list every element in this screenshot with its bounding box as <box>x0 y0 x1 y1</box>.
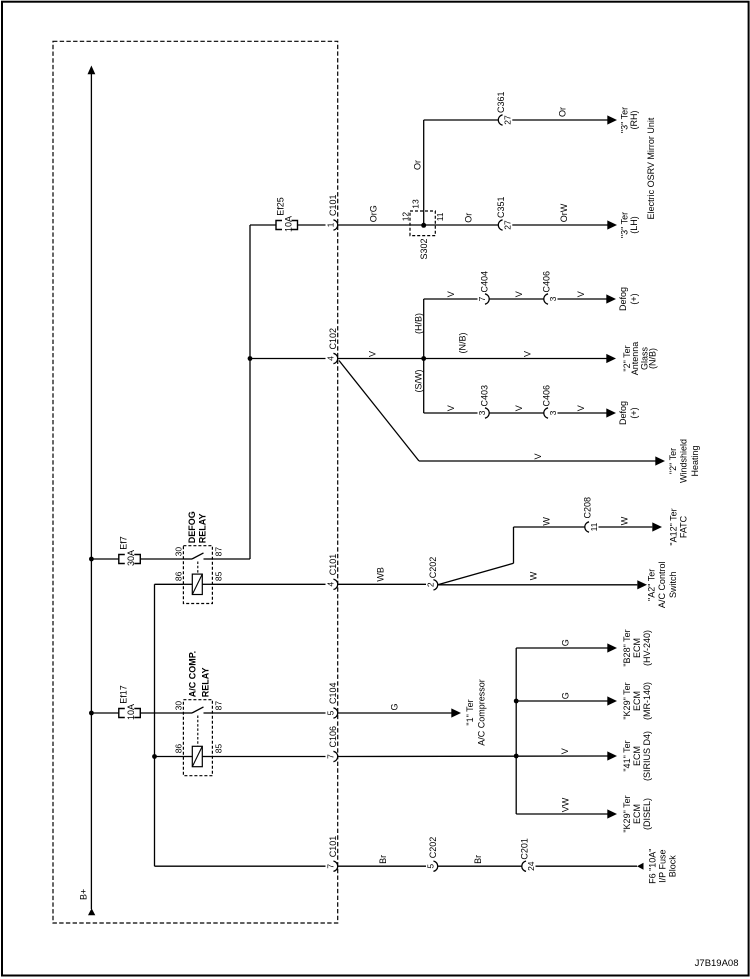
svg-text:11: 11 <box>589 522 599 531</box>
svg-text:10A: 10A <box>283 216 293 232</box>
svg-text:7: 7 <box>477 296 487 301</box>
svg-text:Ef7: Ef7 <box>119 536 129 550</box>
svg-text:C403: C403 <box>480 385 490 407</box>
svg-text:OrW: OrW <box>559 203 569 222</box>
svg-text:RELAY: RELAY <box>197 514 207 544</box>
svg-text:J7B19A08: J7B19A08 <box>695 958 739 969</box>
svg-text:Switch: Switch <box>668 572 678 599</box>
svg-text:1: 1 <box>326 222 336 227</box>
svg-text:(RH): (RH) <box>629 111 639 130</box>
svg-text:G: G <box>390 703 400 710</box>
svg-text:V: V <box>576 405 586 411</box>
svg-text:WB: WB <box>376 567 386 582</box>
svg-text:VW: VW <box>560 797 570 812</box>
svg-text:W: W <box>529 571 539 580</box>
svg-text:5: 5 <box>326 710 336 715</box>
svg-text:86: 86 <box>174 744 184 754</box>
svg-text:"3" Ter: "3" Ter <box>619 212 629 238</box>
svg-text:Defog: Defog <box>618 287 628 311</box>
svg-text:C202: C202 <box>428 557 438 579</box>
svg-text:B+: B+ <box>79 889 89 900</box>
svg-text:86: 86 <box>174 571 184 581</box>
svg-text:(N/B): (N/B) <box>457 333 467 354</box>
svg-text:27: 27 <box>503 115 513 125</box>
svg-text:V: V <box>446 405 456 411</box>
svg-text:Ef17: Ef17 <box>119 685 129 704</box>
svg-text:(S/W): (S/W) <box>413 370 423 393</box>
svg-text:ECM: ECM <box>632 804 642 824</box>
svg-text:V: V <box>446 291 456 297</box>
svg-text:10A: 10A <box>126 704 136 720</box>
svg-text:Or: Or <box>558 107 568 117</box>
svg-text:(MR-140): (MR-140) <box>642 682 652 720</box>
svg-text:A/C COMP.: A/C COMP. <box>187 651 197 697</box>
svg-text:30A: 30A <box>126 550 136 566</box>
svg-text:"K29" Ter: "K29" Ter <box>622 795 632 832</box>
svg-text:"A2" Ter: "A2" Ter <box>647 569 657 601</box>
svg-text:C102: C102 <box>328 328 338 350</box>
svg-text:Antenna: Antenna <box>630 342 640 376</box>
svg-text:V: V <box>522 351 532 357</box>
svg-text:"3" Ter: "3" Ter <box>619 107 629 133</box>
svg-text:Br: Br <box>378 855 388 864</box>
svg-text:4: 4 <box>326 356 336 361</box>
svg-text:12: 12 <box>401 212 411 222</box>
svg-text:11: 11 <box>435 212 445 221</box>
svg-text:Block: Block <box>667 855 677 878</box>
svg-text:W: W <box>620 516 630 525</box>
svg-text:C104: C104 <box>328 682 338 704</box>
svg-text:3: 3 <box>477 410 487 415</box>
svg-text:"A12" Ter: "A12" Ter <box>669 508 679 545</box>
svg-text:Defog: Defog <box>618 401 628 425</box>
svg-text:C404: C404 <box>480 271 490 293</box>
svg-text:2: 2 <box>426 582 436 587</box>
svg-text:Br: Br <box>473 855 483 864</box>
svg-text:DEFOG: DEFOG <box>187 511 197 543</box>
svg-text:(+): (+) <box>629 407 639 418</box>
svg-text:30: 30 <box>174 547 184 557</box>
svg-text:Heating: Heating <box>690 445 700 476</box>
svg-text:"41" Ter: "41" Ter <box>622 740 632 771</box>
svg-text:ECM: ECM <box>632 691 642 711</box>
svg-text:85: 85 <box>213 744 223 754</box>
svg-text:ECM: ECM <box>632 746 642 766</box>
svg-text:87: 87 <box>213 701 223 711</box>
svg-text:C202: C202 <box>428 837 438 859</box>
svg-text:(DISEL): (DISEL) <box>642 798 652 830</box>
svg-text:(+): (+) <box>629 293 639 304</box>
svg-text:C361: C361 <box>496 91 506 113</box>
svg-text:C406: C406 <box>542 385 552 407</box>
svg-text:(SIRIUS D4): (SIRIUS D4) <box>642 731 652 781</box>
svg-text:7: 7 <box>326 864 336 869</box>
svg-text:3: 3 <box>548 296 558 301</box>
svg-text:4: 4 <box>326 582 336 587</box>
svg-text:24: 24 <box>526 861 536 871</box>
svg-text:RELAY: RELAY <box>200 668 210 698</box>
svg-text:V: V <box>514 405 524 411</box>
svg-text:G: G <box>560 692 570 699</box>
svg-text:5: 5 <box>426 864 436 869</box>
svg-text:FATC: FATC <box>678 515 688 538</box>
svg-text:W: W <box>542 517 552 526</box>
svg-text:13: 13 <box>410 199 420 209</box>
svg-text:"1" Ter: "1" Ter <box>465 699 475 725</box>
svg-text:C101: C101 <box>328 554 338 576</box>
svg-text:Or: Or <box>412 160 422 170</box>
svg-text:V: V <box>533 453 543 459</box>
svg-text:V: V <box>368 351 378 357</box>
svg-text:OrG: OrG <box>369 205 379 222</box>
svg-text:V: V <box>576 291 586 297</box>
svg-text:3: 3 <box>548 410 558 415</box>
svg-text:Or: Or <box>464 213 474 223</box>
svg-text:C351: C351 <box>496 196 506 218</box>
svg-text:7: 7 <box>326 754 336 759</box>
svg-text:A/C Control: A/C Control <box>657 562 667 609</box>
svg-text:Ef25: Ef25 <box>276 197 286 216</box>
svg-text:F6 "10A": F6 "10A" <box>647 848 657 883</box>
svg-text:C106: C106 <box>328 726 338 748</box>
svg-text:(N/B): (N/B) <box>648 348 658 369</box>
svg-text:"2" Ter: "2" Ter <box>668 448 678 474</box>
svg-text:27: 27 <box>503 220 513 230</box>
svg-text:I/P Fuse: I/P Fuse <box>658 850 668 883</box>
svg-text:V: V <box>514 291 524 297</box>
svg-text:A/C Compressor: A/C Compressor <box>477 679 487 746</box>
svg-text:C101: C101 <box>328 194 338 216</box>
svg-text:30: 30 <box>174 701 184 711</box>
svg-text:C101: C101 <box>328 836 338 858</box>
svg-text:"B28" Ter: "B28" Ter <box>622 629 632 666</box>
svg-text:(LH): (LH) <box>629 216 639 234</box>
svg-text:(H/B): (H/B) <box>413 313 423 334</box>
svg-text:S302: S302 <box>419 239 429 260</box>
svg-text:C406: C406 <box>542 271 552 293</box>
svg-text:G: G <box>560 639 570 646</box>
svg-text:Windshield: Windshield <box>678 439 688 483</box>
svg-text:"K29" Ter: "K29" Ter <box>622 682 632 719</box>
svg-text:ECM: ECM <box>632 638 642 658</box>
svg-text:Electric OSRV Mirror Unit: Electric OSRV Mirror Unit <box>646 117 656 219</box>
svg-text:(HV-240): (HV-240) <box>642 630 652 666</box>
svg-text:85: 85 <box>213 571 223 581</box>
svg-text:C201: C201 <box>520 838 530 860</box>
svg-text:C208: C208 <box>583 497 593 519</box>
svg-text:87: 87 <box>213 547 223 557</box>
svg-text:V: V <box>560 748 570 754</box>
